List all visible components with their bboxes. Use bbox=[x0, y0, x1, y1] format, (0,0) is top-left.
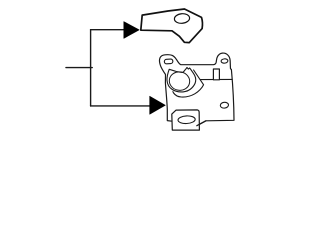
bottom pocket bbox=[172, 110, 200, 130]
wire bottom branch bbox=[91, 105, 151, 107]
small rect tab on seam bbox=[213, 69, 219, 80]
cam blob bbox=[167, 67, 196, 92]
right ear hole bbox=[221, 59, 228, 64]
left ear hole bbox=[164, 59, 173, 64]
lever fin sector bbox=[173, 70, 204, 97]
bracket hole ellipse bbox=[174, 13, 190, 24]
actuator body outline (bottom part) bbox=[159, 53, 234, 126]
wire top branch bbox=[91, 29, 126, 31]
body front edge over pocket bbox=[197, 121, 206, 126]
bracket part outline (top part) bbox=[141, 9, 203, 43]
wire vertical trunk bbox=[90, 30, 92, 106]
right side hole bbox=[220, 102, 229, 109]
cam ellipse bbox=[168, 70, 191, 92]
seam line to right edge bbox=[200, 78, 232, 80]
pocket ellipse bbox=[178, 115, 196, 123]
arrow bottom bbox=[150, 96, 166, 114]
wire stub left bbox=[66, 67, 92, 69]
arrow top bbox=[124, 22, 139, 39]
